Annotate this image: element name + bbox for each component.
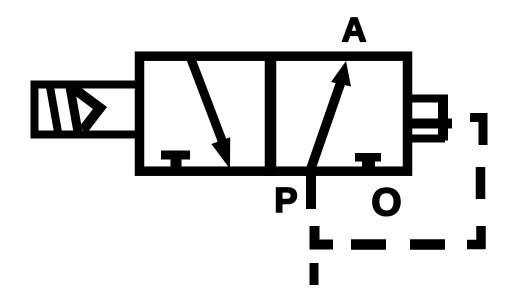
left chamber flow arrowhead bbox=[211, 137, 230, 169]
pilot line corner dash at P bbox=[315, 226, 334, 245]
left chamber flow arrow shaft bbox=[191, 59, 223, 143]
right chamber blocked port T bbox=[355, 153, 381, 169]
right chamber flow arrowhead bbox=[331, 61, 351, 87]
pilot line horizontal dash 2 bbox=[410, 239, 445, 250]
port P stub line bbox=[306, 170, 316, 209]
pilot triangle chevron bbox=[73, 88, 100, 130]
right chamber flow arrow shaft bbox=[309, 79, 342, 174]
valve body outer box bbox=[140, 56, 408, 171]
solenoid slash 1 bbox=[50, 87, 58, 132]
pilot line lower vertical dash below corner bbox=[310, 263, 319, 285]
pilot line bottom right corner dash bbox=[467, 226, 481, 245]
left chamber blocked port T bbox=[161, 151, 190, 170]
valve center divider bbox=[265, 52, 277, 177]
port label P bbox=[277, 188, 297, 212]
solenoid actuator box bbox=[35, 85, 140, 135]
pilot line horizontal dash 1 bbox=[351, 239, 386, 250]
port label O bbox=[373, 188, 400, 216]
solenoid slash 2 bbox=[70, 87, 78, 132]
pilot line top corner dash bbox=[470, 118, 483, 146]
pilot line right vertical dash bbox=[476, 167, 486, 199]
exhaust port block on right edge bbox=[408, 95, 452, 143]
port label A bbox=[343, 18, 366, 41]
